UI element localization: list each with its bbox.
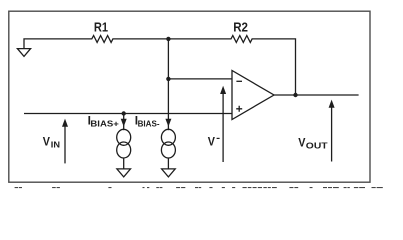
svg-text:R2: R2 [233,20,248,34]
svg-text:V: V [298,136,305,150]
svg-text:V: V [208,135,215,149]
svg-text:V: V [43,134,50,148]
svg-text:OUT: OUT [306,141,329,151]
svg-text:BIAS-: BIAS- [138,118,160,128]
svg-text:IN: IN [51,139,60,149]
svg-text:BIAS+: BIAS+ [90,118,118,128]
svg-text:R1: R1 [94,20,108,34]
